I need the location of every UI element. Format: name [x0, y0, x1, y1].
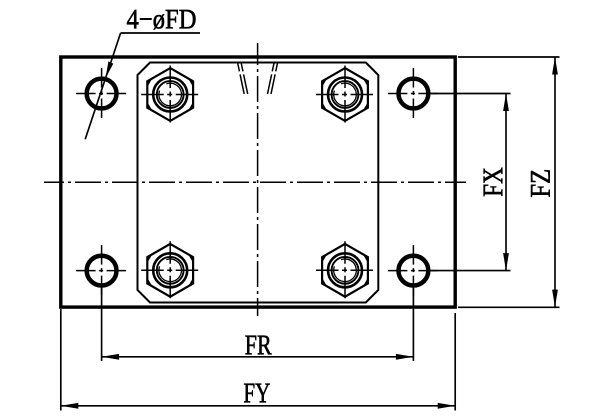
hex nut BR — [316, 241, 374, 299]
label FY — [244, 384, 270, 403]
hex nut TL — [141, 66, 199, 124]
label 4-oFD — [127, 10, 196, 30]
FZ dimension line — [554, 57, 556, 307]
hole circle top-left — [76, 68, 127, 119]
hex nut TR — [316, 66, 374, 124]
label FX — [484, 168, 503, 196]
FY dimension line — [61, 405, 455, 407]
FZ extension top — [458, 56, 560, 58]
FY extension right — [454, 313, 456, 411]
hole circle bottom-left — [76, 245, 127, 296]
hidden taper lines left pair — [238, 63, 248, 95]
FY extension left — [60, 309, 62, 411]
hidden taper lines right pair — [267, 63, 277, 95]
vertical centerline — [257, 43, 259, 316]
label FZ — [531, 170, 550, 197]
hole circle top-right — [388, 68, 439, 119]
leader arrowhead — [105, 61, 113, 78]
FR extension left — [101, 287, 103, 361]
hole circle bottom-right — [388, 245, 439, 296]
label FR — [245, 336, 271, 355]
FR extension right — [412, 287, 414, 361]
plate outline — [61, 57, 455, 307]
FZ extension bottom — [458, 306, 560, 308]
leader line for 4-oFD — [85, 33, 120, 139]
FX dimension line — [505, 94, 507, 271]
FX extension top — [430, 93, 511, 95]
horizontal centerline — [44, 181, 466, 183]
FX extension bottom — [430, 270, 511, 272]
hex nut BL — [141, 241, 199, 299]
inner mounting face with chamfered corners — [138, 63, 379, 303]
FR dimension line — [102, 356, 414, 358]
leader underline — [121, 32, 200, 34]
